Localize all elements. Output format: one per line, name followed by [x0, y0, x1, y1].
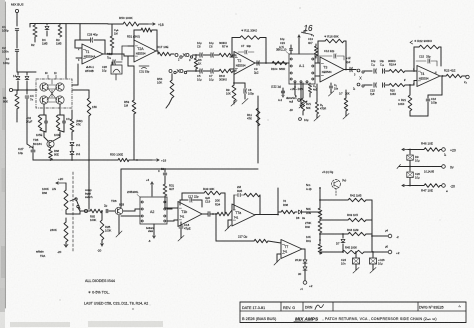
terminal +2 — [303, 281, 307, 285]
wire R37 row — [215, 214, 217, 241]
power +18 arrow 2 — [152, 159, 159, 161]
terminal +2b — [372, 251, 388, 253]
wire network right rail — [371, 200, 373, 252]
0V rail — [397, 165, 401, 169]
wire line C — [121, 168, 258, 170]
diode D8 — [298, 210, 301, 214]
wire top bus — [30, 23, 108, 25]
module A1 box — [289, 54, 315, 84]
wire A1 to T3 — [315, 62, 320, 64]
resistor R10a 680R — [272, 61, 287, 64]
wire — [65, 24, 67, 78]
zener ZD1 2v1 — [70, 142, 74, 145]
diode D6 — [304, 255, 306, 259]
panel dashed line — [72, 172, 74, 252]
wire T7a +input ground — [228, 219, 232, 221]
wire VCA to T1 — [72, 84, 78, 86]
capacitor C32 2u — [105, 209, 107, 212]
terminal -20 — [442, 184, 446, 188]
power -6 — [153, 224, 155, 238]
resistor R47 10E — [424, 184, 440, 188]
resistor R11 47K — [256, 108, 260, 126]
jack contacts row 1 — [175, 54, 178, 57]
row 2 chain — [373, 83, 375, 87]
resistor R50b 100E — [118, 158, 129, 161]
op-amp T1b 741 — [178, 202, 202, 227]
wire — [16, 52, 18, 72]
resistor R17 10K — [345, 90, 347, 98]
title block frame — [240, 301, 466, 303]
resistor R14 470R — [316, 84, 318, 102]
transistor TR3 — [40, 96, 48, 104]
VCA internal wires — [47, 84, 57, 86]
capacitor C31 33p — [139, 65, 149, 67]
capacitor C18 47uF — [180, 222, 182, 225]
transistor TR1 — [40, 83, 48, 91]
wire T7b out — [302, 248, 305, 250]
resistor R63 240K — [65, 218, 67, 222]
terminal +20 — [442, 148, 446, 152]
capacitor C26 10u — [372, 252, 374, 258]
terminal comp in — [84, 209, 87, 212]
wire jack leg — [171, 74, 173, 80]
power +6 — [151, 182, 153, 196]
op-amp T7b 741 — [281, 240, 302, 259]
terminal -2 — [372, 235, 388, 237]
power +18 arrow — [148, 23, 155, 25]
wires TR6 to A2 — [123, 210, 135, 212]
wire network left rail — [319, 188, 321, 208]
op-amp T3 NE5534 — [320, 57, 344, 82]
wire wiper — [65, 210, 67, 214]
power +20 arrow — [56, 182, 66, 184]
transistor TR4 — [56, 96, 64, 104]
resistor R9b 10K — [233, 71, 235, 85]
terminal D18 — [298, 99, 301, 102]
power -20 rail — [402, 185, 408, 187]
wire bias rail — [33, 159, 118, 161]
capacitor C53 — [164, 168, 166, 170]
op-amp T4 NE5534 — [417, 66, 440, 87]
capacitor C16 100p — [427, 95, 429, 98]
scan specks — [300, 8, 301, 9]
wire T7b +input ground — [277, 253, 281, 255]
resistor R46 10E — [424, 148, 440, 152]
wire T4 out — [440, 75, 446, 77]
resistor D17 10E output — [156, 50, 158, 52]
terminal 14 — [9, 88, 12, 91]
capacitor C17 22p feedback — [179, 200, 181, 205]
wire VCA outputs — [43, 104, 45, 115]
resistor R69 47K — [71, 110, 73, 119]
resistor R12 4n5 — [309, 83, 311, 84]
resistor R58 1K0 / capacitor C3 — [56, 115, 59, 130]
scan left margin band — [0, 0, 5, 310]
wire to TR5 — [43, 132, 45, 137]
wire T3 out — [344, 69, 356, 71]
wire A2 to T1b — [167, 208, 172, 210]
terminal 24 — [466, 75, 469, 78]
diode D2 — [26, 72, 28, 75]
resistor R3 1M5 — [59, 24, 61, 26]
module A2 box — [140, 197, 167, 224]
power -20 — [64, 244, 68, 247]
resistor R6 1K — [195, 55, 197, 58]
wire T7a out — [255, 214, 278, 216]
op-amp T7a 741 — [232, 204, 255, 226]
resistor R21 10K0 — [409, 85, 411, 95]
jack contacts row 2 — [169, 70, 172, 73]
wire — [16, 31, 18, 48]
potentiometer RV1 50K — [302, 83, 304, 98]
resistor R68 80E — [50, 148, 52, 149]
resistor R65 100K — [88, 210, 90, 212]
capacitor C5 10n — [330, 83, 332, 85]
op-amp T2A NE5534 — [134, 40, 156, 62]
wire to VCA — [13, 89, 37, 91]
resistor R1 80K — [16, 90, 18, 94]
resistor R56 15K — [72, 89, 89, 91]
capacitor C29 — [112, 60, 114, 64]
transistor TR5 BC184 — [47, 140, 54, 147]
resistor R2 — [33, 25, 37, 37]
wire long vertical — [257, 100, 259, 163]
jack contacts T4 input — [353, 69, 356, 71]
wire side chain vertical — [277, 188, 279, 215]
capacitor C2 — [15, 49, 18, 51]
resistor R62 100K — [101, 211, 103, 220]
op-amp T2 NE5534 — [234, 52, 255, 75]
resistor R37 — [254, 239, 268, 242]
terminal 0V — [442, 165, 446, 169]
transistor TR6 — [115, 207, 123, 215]
capacitor C1 — [15, 28, 18, 30]
diode D5 — [304, 264, 306, 267]
diode D4 1M5 — [46, 24, 48, 26]
wire T2 out — [255, 62, 289, 64]
wire diode rail — [17, 71, 36, 73]
VCA dashed box — [36, 79, 72, 108]
capacitor C9 2u2 — [256, 61, 258, 65]
wire — [79, 24, 81, 40]
wire to comp input — [88, 160, 90, 209]
wire input down — [16, 13, 18, 26]
capacitor C8 100p — [234, 82, 245, 84]
capacitor C20 10u — [409, 167, 411, 172]
power +20 rail — [402, 149, 408, 151]
transistor TR2 — [56, 83, 64, 91]
diode D1 — [17, 72, 19, 75]
wire T1 out — [103, 53, 124, 55]
op-amp T1 NE5534 — [82, 44, 103, 64]
resistor R31 4K7 — [163, 184, 167, 196]
diode D9 — [409, 150, 411, 155]
capacitor C24 10n — [355, 252, 357, 258]
resistor R57 1K5 / capacitor C2a — [38, 115, 41, 130]
wire T1b out — [202, 213, 208, 215]
resistor R53 1M — [127, 56, 129, 66]
zener ZD2 2v1 — [71, 146, 73, 151]
capacitor C4 — [26, 90, 28, 94]
terminal -18b — [299, 118, 302, 121]
